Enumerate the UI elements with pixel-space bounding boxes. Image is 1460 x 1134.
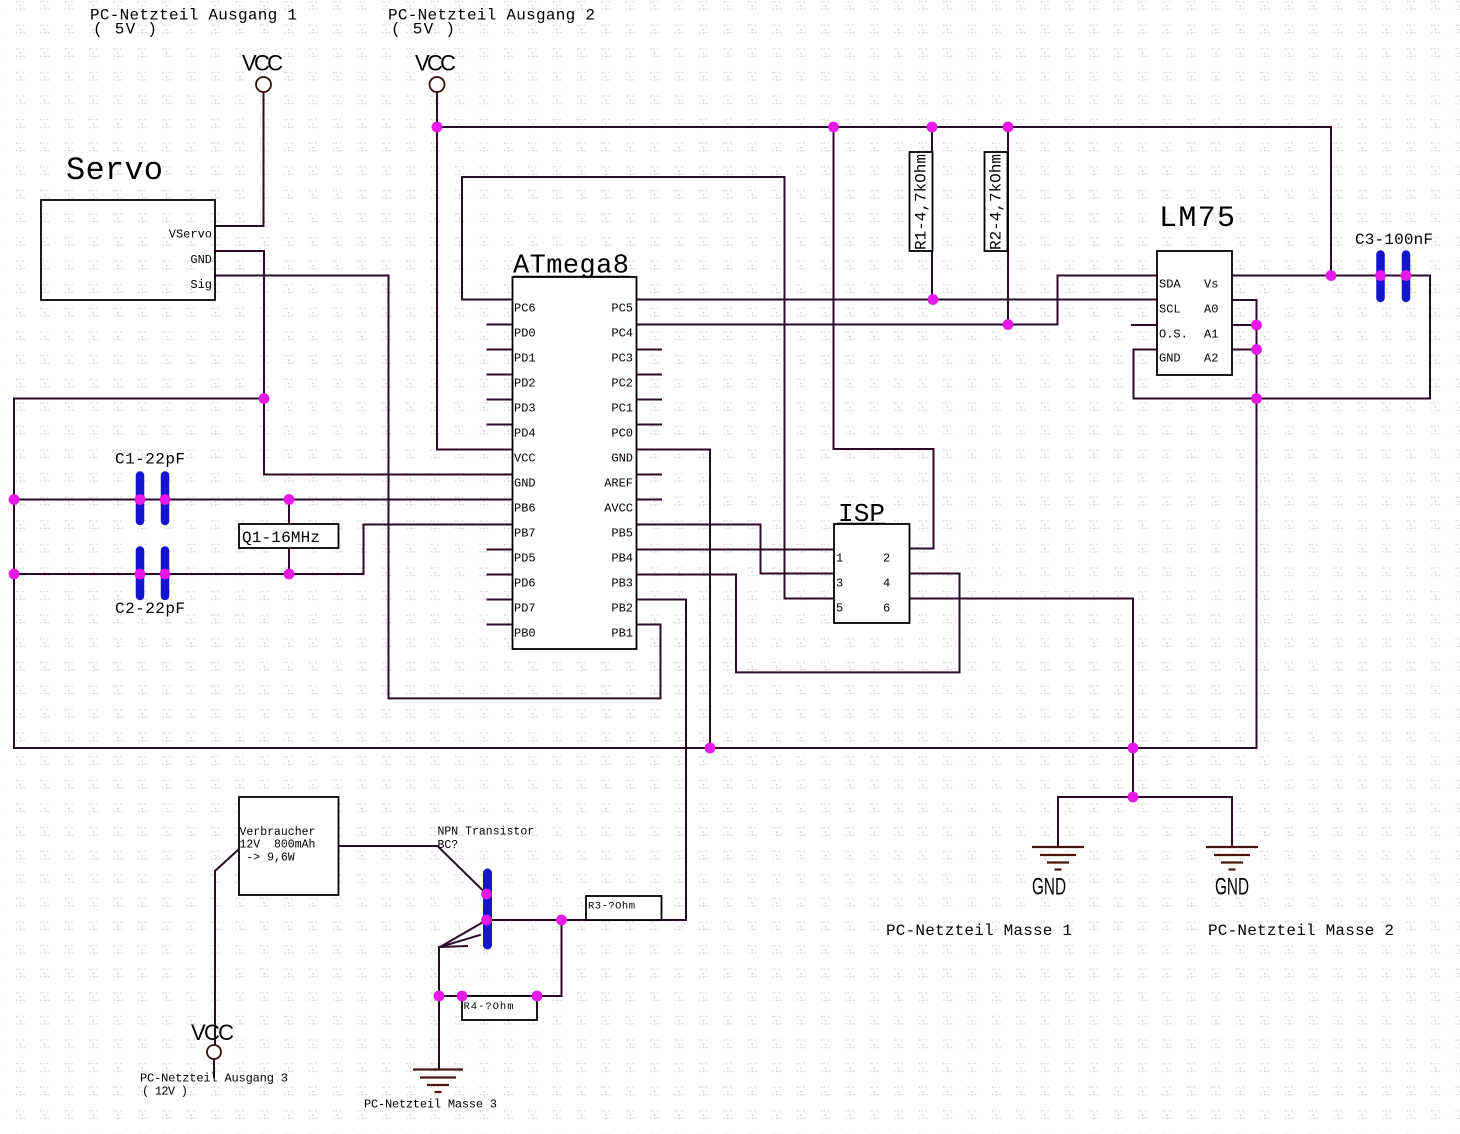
svg-text:GND: GND [514,477,536,491]
svg-text:PD3: PD3 [514,402,536,416]
wire: PD1 stub [488,349,513,351]
wire: left GND branch to servo net [14,398,264,400]
svg-text:6: 6 [883,602,890,616]
wire: servo Sig to ATmega PB1 [215,276,661,699]
servo box [41,200,215,300]
wire: left GND vertical [13,399,15,749]
wire: SDA bus PC4 to LM75 SDA [637,276,1158,325]
wire: LM75 GND down [1134,350,1158,399]
wire: ATmega GND right to ground bus [637,450,711,749]
LM75 right pin labels [1204,278,1218,366]
wire: ground symbols branch [1132,748,1134,797]
wire: right riser ground bus to LM75 net [1256,399,1258,749]
wire: Verbraucher to VCC3 [215,849,239,1045]
wire: SCL bus PC5 to LM75 SCL [637,299,1158,301]
svg-text:R2-4,7kOhm: R2-4,7kOhm [988,154,1006,250]
svg-text:-> 9,6W: -> 9,6W [240,852,295,865]
VCC symbol 2 circle [430,77,445,92]
svg-text:VCC: VCC [415,51,456,76]
wire: emitter arrow barb 1 [440,935,480,947]
wire: bus corner down to LM75 Vs [1330,127,1332,276]
svg-text:A0: A0 [1204,303,1218,317]
svg-text:GND: GND [190,253,212,267]
capacitor C1 plates [140,476,165,522]
wire: PB3 to ISP pin4 under-route [637,574,960,673]
wire: crystal Q1 bottom stub [288,548,290,574]
svg-text:VServo: VServo [169,228,212,242]
svg-text:BC?: BC? [438,839,459,852]
svg-text:( 5V ): ( 5V ) [93,21,157,39]
wire: ground bus [14,747,1257,749]
resistor R4 box [462,996,537,1020]
ISP box [834,524,910,623]
wire: PD3 stub [488,399,513,401]
svg-text:( 5V ): ( 5V ) [391,21,455,39]
wire: R2 vertical [1007,127,1009,325]
svg-text:12V 800mAh: 12V 800mAh [240,839,316,852]
svg-text:PB3: PB3 [611,577,633,591]
svg-text:PC-Netzteil Ausgang 3: PC-Netzteil Ausgang 3 [140,1072,288,1086]
wire: PB5 to ISP pin3 [637,525,835,574]
wire: PD5 stub [488,549,513,551]
wire: stem to ground symbol 1 [1057,797,1059,847]
svg-text:( 12V ): ( 12V ) [142,1085,188,1099]
ISP pin labels [836,552,890,616]
svg-text:1: 1 [836,552,843,566]
ISP title underline [837,523,885,525]
wire: R4 row [439,995,562,997]
svg-text:PB7: PB7 [514,527,536,541]
ATmega8 title underline [513,276,630,278]
servo pin labels [169,228,212,293]
wire: top VCC bus [437,126,1331,128]
svg-text:PD5: PD5 [514,552,536,566]
svg-text:Verbraucher: Verbraucher [240,826,316,839]
svg-text:3: 3 [836,577,843,591]
wire: C1 row to PB6 [14,499,513,501]
wire: VCC3 stub below circle [213,1059,215,1077]
resistor R1 box [910,152,933,251]
svg-text:AVCC: AVCC [604,502,633,516]
svg-text:NPN Transistor: NPN Transistor [438,826,535,839]
wire: ISP pin6 to ground bus [910,599,1134,749]
wire: R1 vertical [931,127,933,300]
ATmega8 right pin labels [604,302,633,641]
svg-text:PB5: PB5 [611,527,633,541]
svg-text:R1-4,7kOhm: R1-4,7kOhm [913,154,931,250]
wire: PC2 stub [637,374,662,376]
svg-text:C2-22pF: C2-22pF [115,600,185,618]
svg-text:PD6: PD6 [514,577,536,591]
wire: PD2 stub [488,374,513,376]
VCC symbol 3 circle [207,1045,221,1059]
svg-text:SCL: SCL [1159,303,1181,317]
Verbraucher load box [239,797,339,895]
wire: VCC2 stem to ATmega VCC [437,92,513,450]
svg-text:GND: GND [1032,874,1066,901]
wire: reset net PC6 to ISP pin5 [462,177,834,599]
svg-text:PB0: PB0 [514,627,536,641]
wire: emitter vertical to ground [438,947,440,1069]
svg-text:PB1: PB1 [611,627,633,641]
LM75 left pin labels [1159,278,1188,366]
svg-text:C1-22pF: C1-22pF [115,451,185,469]
wire: PD0 stub [488,324,513,326]
wire: VCC1 stem to VServo [215,92,264,226]
wire: PC0 stub [637,424,662,426]
wire: ATmega PB2 to transistor base [488,600,687,921]
svg-text:PB4: PB4 [611,552,633,566]
wire: LM75 O.S. stub [1132,324,1157,326]
svg-text:ISP: ISP [838,499,885,529]
svg-text:PC3: PC3 [611,352,633,366]
svg-text:A1: A1 [1204,328,1218,342]
ATmega8 left pin labels [514,302,536,641]
wire: PB0 stub [488,624,513,626]
svg-text:PB2: PB2 [611,602,633,616]
wire: LM75 A1 [1232,324,1257,326]
ATmega8 box [513,277,637,649]
wire: LM75 A2 [1232,349,1257,351]
wire: transistor emitter diagonal [440,921,485,947]
wire: base junction riser to R4 row [561,920,563,996]
wire: stem to ground symbol 2 [1231,797,1233,847]
capacitor C2 plates [140,551,165,597]
VCC symbol 1 circle [256,77,271,92]
svg-text:SDA: SDA [1159,278,1181,292]
svg-text:R4-?Ohm: R4-?Ohm [464,1001,514,1013]
capacitor C3 plates [1381,255,1407,299]
svg-text:PC6: PC6 [514,302,536,316]
wire: VCC bus to ISP pin2 [834,127,934,549]
ground symbol 2 (PC-Netzteil Masse 2) [1206,847,1258,870]
svg-text:PC1: PC1 [611,402,633,416]
svg-text:PD4: PD4 [514,427,536,441]
wire: PC3 stub [637,349,662,351]
svg-text:C3-100nF: C3-100nF [1355,231,1433,249]
svg-text:PD0: PD0 [514,327,536,341]
svg-text:VCC: VCC [191,1020,234,1045]
svg-text:PC2: PC2 [611,377,633,391]
svg-text:PC5: PC5 [611,302,633,316]
wire: PD4 stub [488,424,513,426]
svg-text:PD1: PD1 [514,352,536,366]
ground symbol 3 (PC-Netzteil Masse 3) [413,1070,463,1093]
svg-text:2: 2 [883,552,890,566]
wire: C2 row to PB7 [14,525,513,575]
Verbraucher text [240,826,316,865]
svg-text:Servo: Servo [66,152,163,189]
resistor R2 box [985,152,1008,251]
wire: LM75 Vs to C3 loop [1134,276,1431,399]
resistor R3 box [586,896,662,920]
svg-text:PD2: PD2 [514,377,536,391]
wire: crystal Q1 top stub [288,500,290,525]
svg-text:O.S.: O.S. [1159,328,1188,342]
wire: emitter arrow barb 2 [440,946,467,947]
transistor Q NPN bar [483,873,492,945]
svg-text:PC0: PC0 [611,427,633,441]
LM75 box [1157,251,1232,375]
wire: servo GND to ATmega GND left [215,251,513,475]
svg-text:PB6: PB6 [514,502,536,516]
wire: AREF stub [637,474,662,476]
svg-text:PC-Netzteil Masse 2: PC-Netzteil Masse 2 [1208,922,1394,940]
crystal Q1 box [239,524,339,548]
NPN transistor label [438,826,535,853]
ground symbol 1 (PC-Netzteil Masse 1) [1032,847,1084,870]
svg-text:Q1-16MHz: Q1-16MHz [242,529,320,547]
svg-text:VCC: VCC [514,452,536,466]
wire: PC1 stub [637,399,662,401]
svg-text:Sig: Sig [190,278,212,292]
wire: LM75 A0 [1232,300,1257,399]
svg-text:Vs: Vs [1204,278,1218,292]
svg-text:A2: A2 [1204,352,1218,366]
wire: PD6 stub [488,574,513,576]
svg-text:GND: GND [1159,352,1181,366]
wire: PB4 to ISP pin1 [637,549,835,551]
svg-text:PC-Netzteil Masse 1: PC-Netzteil Masse 1 [886,922,1072,940]
svg-text:5: 5 [836,602,843,616]
svg-text:VCC: VCC [242,51,283,76]
svg-text:GND: GND [1215,874,1249,901]
svg-text:4: 4 [883,577,890,591]
svg-text:GND: GND [611,452,633,466]
wire: ground symbols tee [1058,796,1232,798]
svg-text:PD7: PD7 [514,602,536,616]
svg-text:R3-?Ohm: R3-?Ohm [588,901,635,913]
svg-text:PC-Netzteil Masse 3: PC-Netzteil Masse 3 [364,1098,497,1112]
svg-text:AREF: AREF [604,477,633,491]
svg-text:LM75: LM75 [1159,202,1235,236]
wire: Verbraucher collector lead [339,846,487,894]
svg-text:PC4: PC4 [611,327,633,341]
wire: PD7 stub [488,599,513,601]
wire: AVCC stub [637,499,662,501]
